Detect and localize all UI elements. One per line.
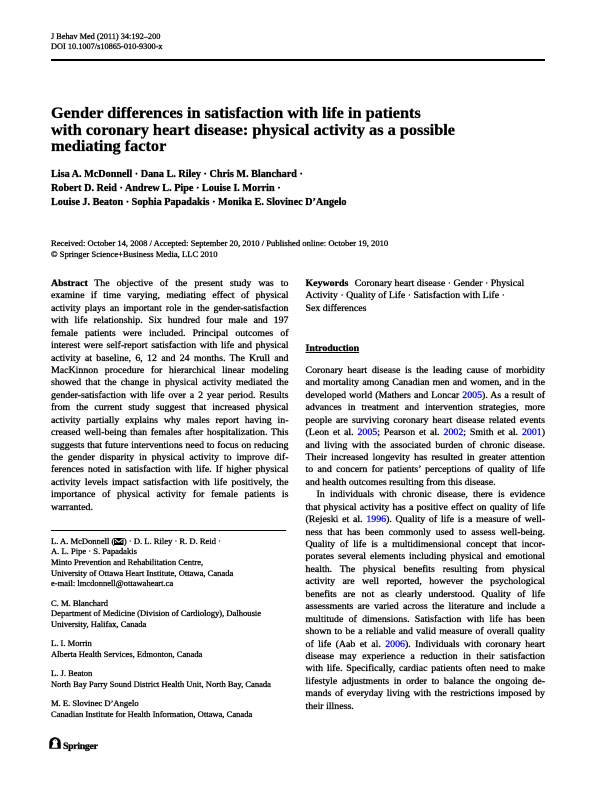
footnote: Morrin (51, 638, 301, 659)
abstract paragraph (left column) (51, 278, 289, 514)
keywords (right column) (306, 278, 546, 315)
footnote: Beaton (51, 668, 301, 689)
Springer logo (49, 737, 169, 751)
footnote: Slovinec D'Angelo (51, 698, 301, 719)
header rule (51, 59, 546, 61)
footnote rule (51, 530, 286, 531)
Introduction heading (306, 343, 360, 354)
introduction body (right column) (306, 365, 546, 713)
journal header (51, 32, 163, 51)
received / accepted line (51, 238, 388, 260)
footnote: Blanchard (51, 598, 301, 630)
article title (51, 105, 455, 155)
footnote: corresponding author block (51, 536, 301, 729)
authors (51, 168, 347, 209)
